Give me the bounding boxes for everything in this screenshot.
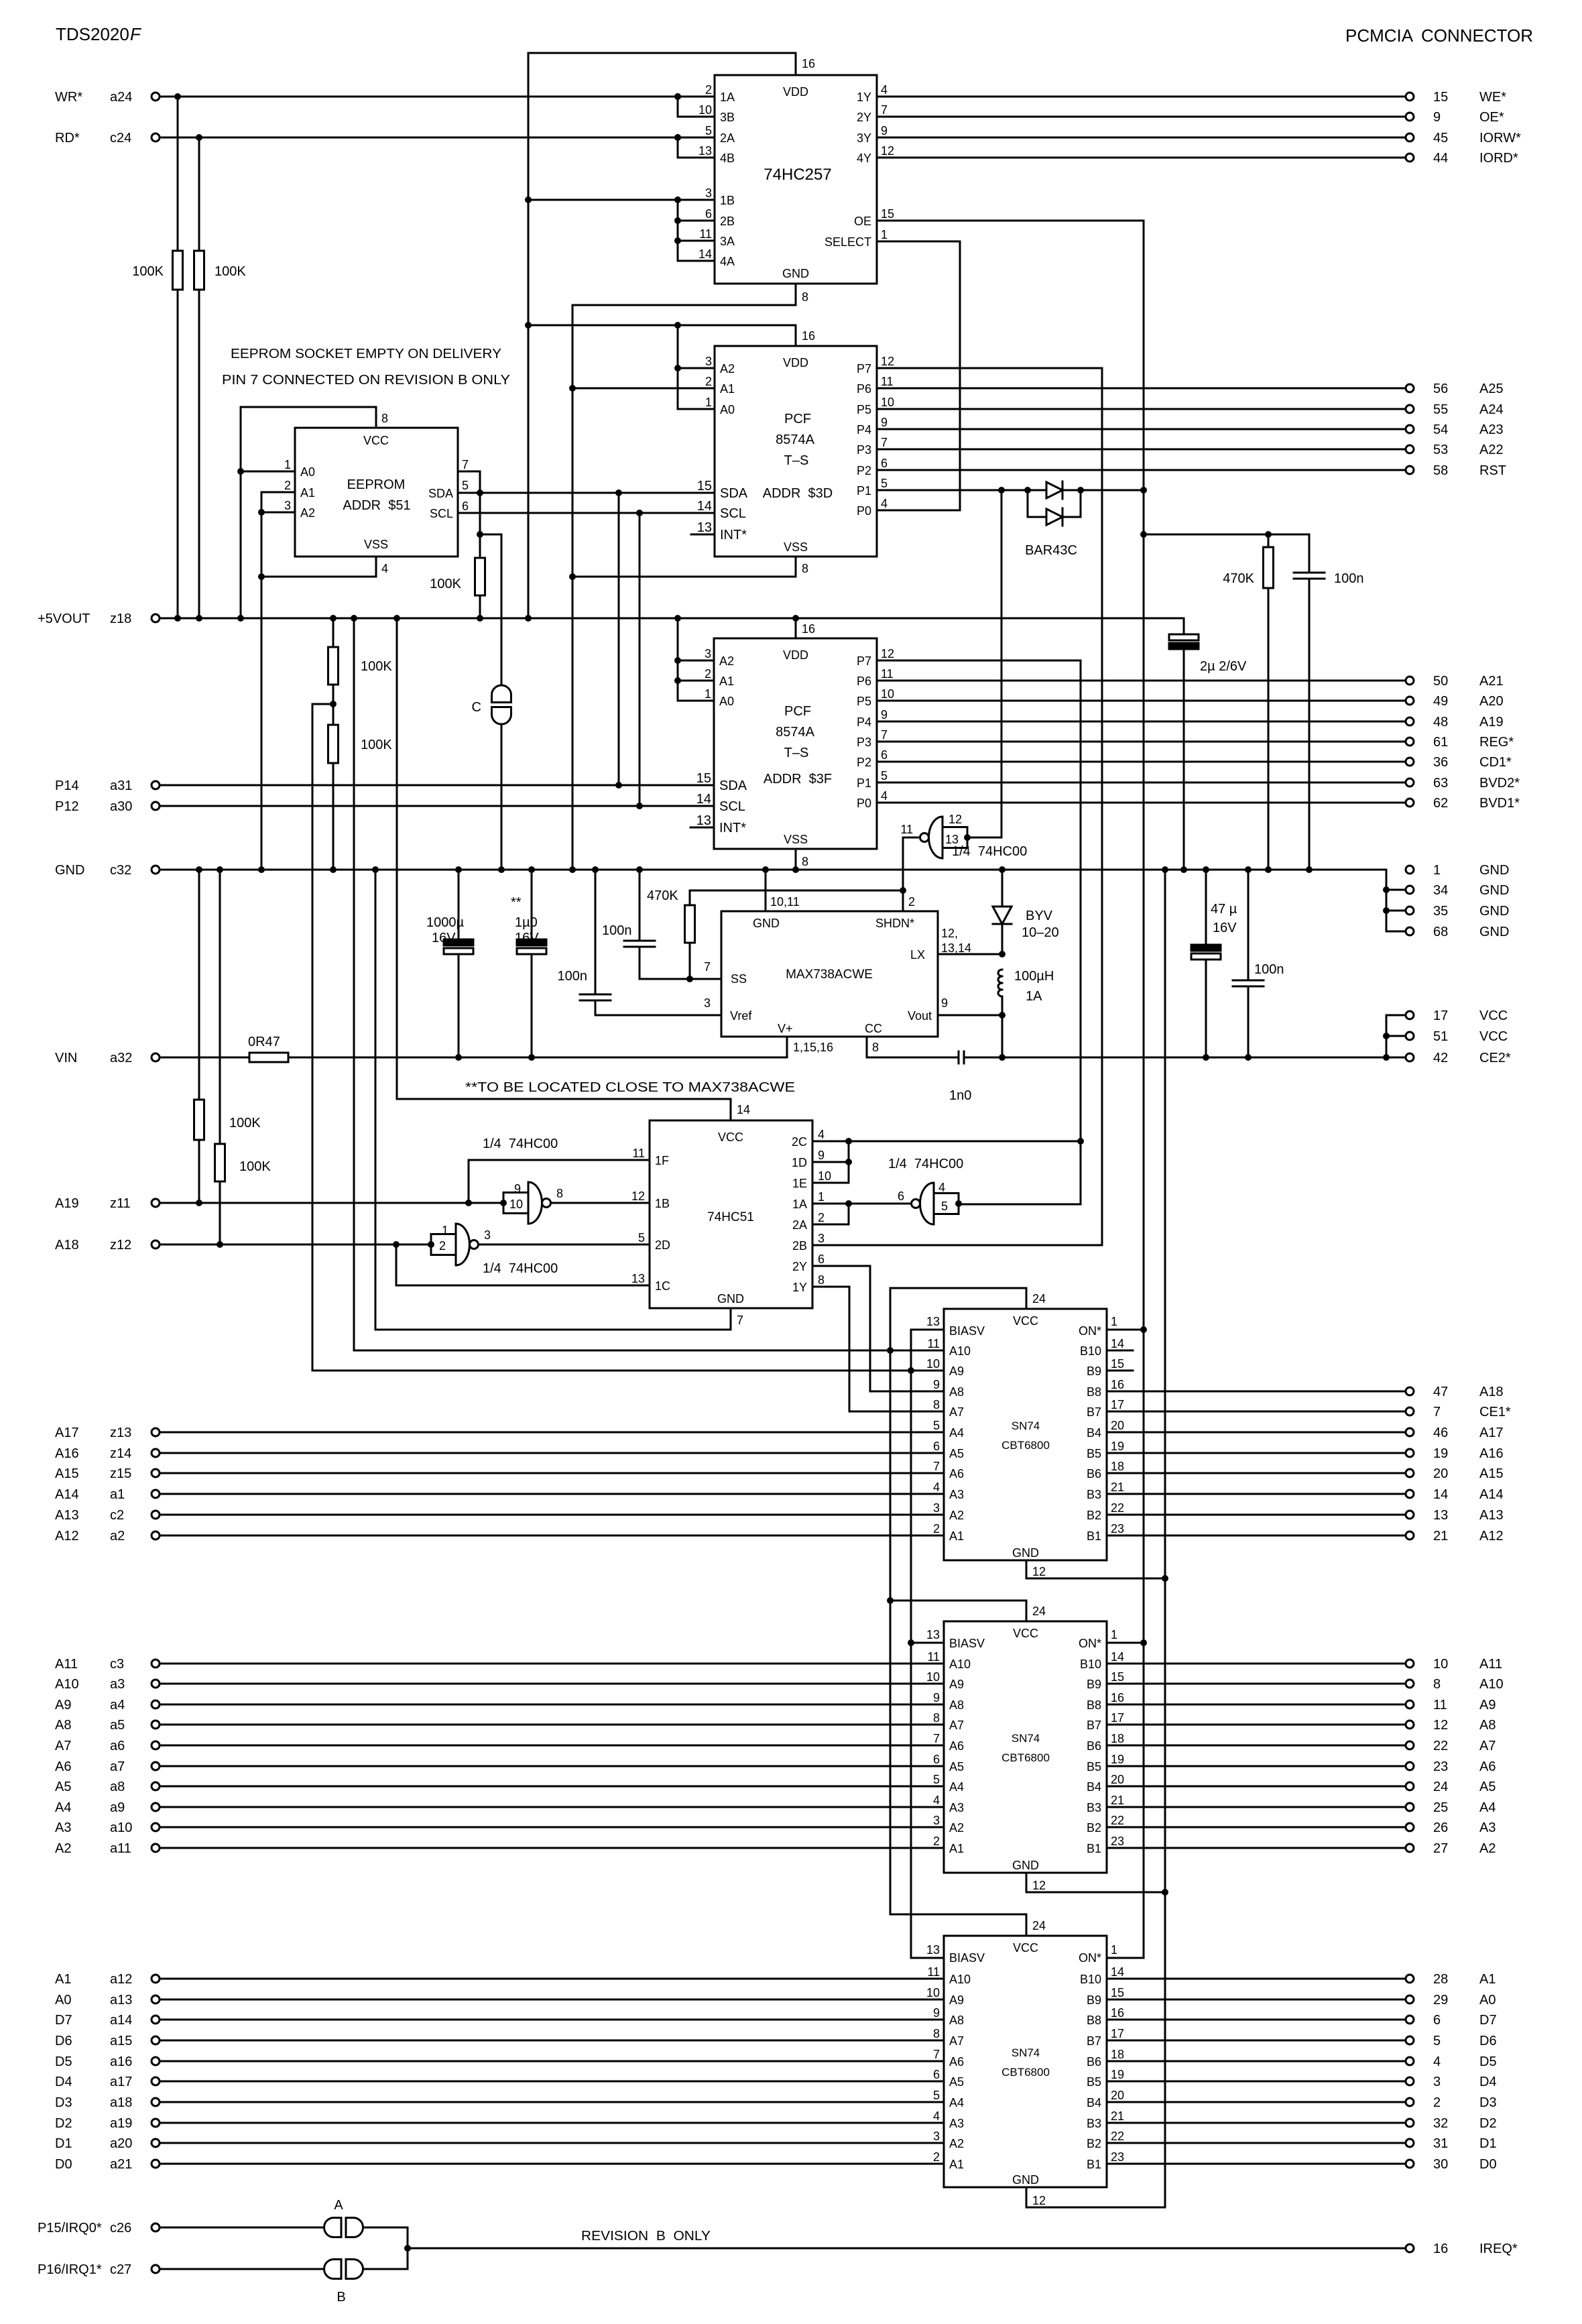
- svg-text:MAX738ACWE: MAX738ACWE: [786, 968, 873, 982]
- diode BAR43C lower: [1028, 490, 1081, 526]
- svg-text:15: 15: [697, 479, 712, 493]
- svg-text:7: 7: [704, 960, 711, 974]
- U9 pin 16 B8: [1087, 1691, 1124, 1712]
- svg-text:a19: a19: [110, 2116, 132, 2131]
- wire A19 to NAND U5B input: [160, 1200, 503, 1206]
- terminal WR* a24: [55, 90, 160, 105]
- svg-text:4: 4: [881, 83, 888, 97]
- svg-text:23: 23: [1111, 1835, 1124, 1848]
- terminal 23 A6: [1406, 1759, 1496, 1774]
- svg-text:100K: 100K: [361, 659, 392, 674]
- U2 pin 12 P7 label: [857, 355, 894, 375]
- svg-text:4: 4: [933, 2109, 940, 2123]
- terminal 49 A20: [1406, 694, 1504, 709]
- svg-text:47: 47: [1433, 1385, 1448, 1399]
- wire GND branch to connector grounds: [1383, 870, 1406, 931]
- wire VCC branch to connector VCC pins: [1383, 1015, 1406, 1057]
- svg-text:100K: 100K: [361, 738, 392, 752]
- svg-text:12: 12: [881, 355, 894, 368]
- svg-text:4: 4: [881, 497, 888, 510]
- svg-text:7: 7: [933, 1732, 940, 1745]
- svg-text:8: 8: [381, 412, 388, 425]
- svg-text:A3: A3: [949, 1488, 964, 1501]
- capacitor 1u0 16V: [511, 870, 546, 1057]
- wire 2A to 4B tie: [674, 134, 681, 158]
- wire D1 to U10: [160, 2142, 944, 2144]
- svg-text:P5: P5: [857, 403, 871, 416]
- svg-text:A1: A1: [55, 1972, 71, 1987]
- svg-text:VIN: VIN: [55, 1051, 77, 1065]
- terminal +5VOUT z18: [38, 612, 160, 626]
- U10 pin 10 A9: [926, 1986, 964, 2007]
- terminal RD* c24: [55, 131, 160, 146]
- wire U10 B side to D1: [1107, 2142, 1406, 2144]
- terminal A9 a4: [55, 1698, 160, 1712]
- svg-text:22: 22: [1111, 1814, 1124, 1827]
- svg-text:A2: A2: [949, 1509, 964, 1522]
- terminal 46 A17: [1406, 1426, 1504, 1440]
- svg-text:B: B: [337, 2290, 345, 2305]
- U7 pin 10 1E: [792, 1169, 831, 1190]
- wire 1B 2B 3A 4A tie to VDD column: [525, 196, 681, 261]
- svg-text:P7: P7: [857, 362, 871, 375]
- text note pin7: [222, 373, 510, 388]
- svg-text:A17: A17: [55, 1426, 79, 1440]
- svg-text:27: 27: [1433, 1841, 1448, 1856]
- svg-text:A22: A22: [1479, 443, 1504, 457]
- IC U1 74HC257 quad mux body: [715, 75, 877, 284]
- svg-text:8: 8: [933, 1711, 940, 1725]
- svg-text:2: 2: [705, 375, 712, 388]
- wire A1 to U10: [160, 1978, 944, 1980]
- svg-text:P15/IRQ0*: P15/IRQ0*: [38, 2221, 102, 2235]
- svg-text:A10: A10: [55, 1677, 79, 1692]
- svg-text:1: 1: [442, 1224, 448, 1237]
- svg-text:A2: A2: [949, 2137, 964, 2150]
- wire U7 2Y to CBT A8: [812, 1266, 944, 1391]
- svg-text:28: 28: [1433, 1972, 1448, 1987]
- U1 pin 12 4Y stub: [857, 144, 894, 165]
- svg-text:VCC: VCC: [1013, 1314, 1038, 1328]
- U9 pin 1 ON* stub: [1107, 1628, 1144, 1643]
- terminal D6 a15: [55, 2034, 160, 2048]
- U8 pin 15 B9: [1087, 1357, 1124, 1378]
- svg-text:6: 6: [1433, 2013, 1441, 2028]
- U9 pin 5 A4: [933, 1773, 964, 1794]
- svg-text:z12: z12: [110, 1238, 131, 1253]
- svg-text:A2: A2: [719, 654, 734, 668]
- svg-text:B7: B7: [1087, 1405, 1101, 1419]
- U10 pin 3 A2: [933, 2130, 964, 2150]
- U10 pin 22 B2: [1087, 2130, 1124, 2150]
- svg-text:1D: 1D: [792, 1156, 807, 1169]
- U7 pin 12 1B: [631, 1189, 670, 1210]
- wire U2 VDD line: [528, 322, 796, 329]
- svg-text:8: 8: [872, 1041, 879, 1054]
- U1 pin 3 1B stub: [678, 186, 735, 207]
- svg-text:B1: B1: [1087, 2158, 1101, 2171]
- wire U7 2B from U2 P7: [812, 1244, 1102, 1246]
- svg-text:GND: GND: [55, 863, 84, 878]
- svg-text:a8: a8: [110, 1780, 125, 1794]
- wire A19 branch to 74HC51 1F: [469, 1160, 650, 1203]
- svg-text:3B: 3B: [720, 111, 735, 124]
- svg-text:D3: D3: [1479, 2095, 1497, 2110]
- svg-text:P2: P2: [857, 756, 871, 769]
- svg-text:22: 22: [1111, 2130, 1124, 2143]
- svg-text:1A: 1A: [1026, 989, 1042, 1004]
- svg-text:1A: 1A: [792, 1198, 807, 1211]
- wire U9 B side to A8: [1107, 1724, 1406, 1726]
- svg-text:100µH: 100µH: [1014, 969, 1054, 984]
- wire A0 to U10: [160, 1999, 944, 2001]
- svg-text:12: 12: [631, 1189, 645, 1203]
- svg-text:8: 8: [802, 290, 808, 304]
- wire IRQ0 to link A: [160, 2227, 324, 2229]
- svg-text:35: 35: [1433, 904, 1448, 919]
- U7 pin 2 2A: [792, 1211, 825, 1232]
- svg-text:a30: a30: [110, 799, 132, 814]
- svg-text:61: 61: [1433, 735, 1448, 750]
- U2 pin 16 VDD stub: [796, 325, 815, 346]
- wire VDD net from node column to U1 pin 16: [528, 52, 796, 54]
- svg-text:15: 15: [1111, 1357, 1124, 1371]
- svg-text:EEPROM SOCKET EMPTY ON DELIVER: EEPROM SOCKET EMPTY ON DELIVERY: [231, 347, 501, 361]
- wire U4 P2 to CD1*: [877, 761, 1406, 763]
- svg-text:10–20: 10–20: [1022, 925, 1059, 940]
- svg-text:1E: 1E: [792, 1177, 807, 1190]
- terminal 19 A16: [1406, 1446, 1504, 1461]
- U9 pin 6 A5: [933, 1753, 964, 1774]
- wire A11 to U9: [160, 1663, 944, 1665]
- svg-text:3A: 3A: [720, 235, 735, 248]
- svg-text:1Y: 1Y: [857, 91, 871, 104]
- svg-text:6: 6: [898, 1189, 904, 1203]
- svg-text:A0: A0: [1479, 1993, 1496, 2008]
- svg-text:A12: A12: [1479, 1529, 1504, 1544]
- svg-text:3: 3: [933, 1814, 940, 1827]
- terminal A13 c2: [55, 1508, 160, 1523]
- svg-text:A1: A1: [1479, 1972, 1496, 1987]
- wire U10 B side to D4: [1107, 2081, 1406, 2083]
- svg-text:CC: CC: [865, 1022, 882, 1035]
- U3 pin 4 VSS stub: [376, 557, 388, 577]
- svg-text:B6: B6: [1087, 1739, 1101, 1753]
- svg-text:ADDR $51: ADDR $51: [343, 498, 410, 513]
- svg-text:GND: GND: [1012, 1859, 1039, 1872]
- svg-text:14: 14: [1111, 1650, 1124, 1664]
- terminal A11 c3: [55, 1657, 160, 1672]
- terminal D5 a16: [55, 2054, 160, 2069]
- svg-text:7: 7: [881, 103, 888, 117]
- terminal 61 REG*: [1406, 735, 1514, 750]
- svg-text:P5: P5: [857, 695, 871, 708]
- U6 CC pin 8 stub: [867, 1037, 879, 1057]
- svg-text:2A: 2A: [720, 131, 735, 145]
- wire U8 B side to A13: [1107, 1514, 1406, 1516]
- wire A8 to U9: [160, 1724, 944, 1726]
- U9 pin 4 A3: [933, 1794, 964, 1814]
- svg-text:a16: a16: [110, 2054, 132, 2069]
- U1 pin 4 1Y stub: [857, 83, 888, 104]
- svg-text:4: 4: [933, 1794, 940, 1807]
- svg-text:SDA: SDA: [428, 487, 453, 500]
- svg-text:1: 1: [881, 228, 888, 241]
- svg-text:D2: D2: [55, 2116, 72, 2131]
- U1 pin 13 4B stub: [678, 144, 735, 165]
- terminal 47 A18: [1406, 1385, 1504, 1399]
- svg-text:A2: A2: [300, 506, 315, 520]
- svg-text:10: 10: [509, 1198, 523, 1211]
- svg-text:BIASV: BIASV: [949, 1324, 985, 1338]
- gate U5B 1/4 74HC00 nand: [483, 1137, 563, 1224]
- svg-text:2: 2: [1433, 2095, 1441, 2110]
- U10 pin 5 A4: [933, 2089, 964, 2109]
- svg-text:P3: P3: [857, 736, 871, 749]
- svg-text:A9: A9: [55, 1698, 71, 1712]
- terminal 45 IORW*: [1406, 131, 1521, 146]
- svg-text:19: 19: [1111, 1440, 1124, 1453]
- IC U2 PCF8574A ADDR $3D body: [715, 346, 877, 557]
- wire SCL down to U4 SCL: [636, 513, 643, 809]
- wire U10 B side to A0: [1107, 1999, 1406, 2001]
- gate U5A 1/4 74HC00 nand: [900, 813, 1027, 859]
- svg-text:36: 36: [1433, 755, 1448, 770]
- svg-text:PCF: PCF: [784, 704, 811, 719]
- svg-text:12: 12: [1032, 1565, 1046, 1578]
- svg-text:A4: A4: [1479, 1800, 1496, 1815]
- svg-text:A5: A5: [949, 1760, 964, 1774]
- svg-text:1: 1: [705, 687, 711, 701]
- terminal 5 D6: [1406, 2034, 1497, 2048]
- svg-text:17: 17: [1111, 1398, 1124, 1411]
- U6 SS pin 7 wire: [640, 960, 721, 979]
- svg-text:a21: a21: [110, 2157, 132, 2172]
- svg-text:5: 5: [1433, 2034, 1441, 2048]
- svg-text:D6: D6: [55, 2034, 72, 2048]
- svg-text:9: 9: [933, 2006, 940, 2020]
- svg-text:13: 13: [631, 1272, 645, 1285]
- U8 pin 18 B6: [1087, 1460, 1124, 1480]
- U10 pin 4 A3: [933, 2109, 964, 2130]
- svg-text:B9: B9: [1087, 1993, 1101, 2007]
- svg-text:c27: c27: [110, 2262, 131, 2277]
- svg-text:SHDN*: SHDN*: [875, 917, 914, 930]
- svg-text:12: 12: [1433, 1718, 1448, 1733]
- svg-text:z15: z15: [110, 1466, 131, 1481]
- U2 pin 15 SDA stub: [697, 479, 748, 501]
- terminal D2 a19: [55, 2116, 160, 2131]
- wire U10 B side to D2: [1107, 2122, 1406, 2124]
- terminal 4 D5: [1406, 2054, 1497, 2069]
- svg-text:44: 44: [1433, 151, 1448, 166]
- svg-text:16: 16: [802, 329, 815, 343]
- U10 pin 12 GND stub: [1026, 2187, 1165, 2207]
- svg-text:21: 21: [1111, 2109, 1124, 2123]
- terminal A16 z14: [55, 1446, 160, 1461]
- U2 pin 11 P6 label: [857, 375, 894, 396]
- wire U10 B side to D5: [1107, 2060, 1406, 2062]
- svg-text:15: 15: [1111, 1670, 1124, 1684]
- U8 pin 21 B3: [1087, 1480, 1124, 1501]
- svg-text:SS: SS: [731, 972, 747, 986]
- U8 pin 17 B7: [1087, 1398, 1124, 1419]
- svg-text:19: 19: [1111, 1753, 1124, 1766]
- svg-text:14: 14: [697, 499, 712, 514]
- wire U9 B side to A6: [1107, 1765, 1406, 1767]
- wire VCC rail down CBT column: [887, 1350, 894, 1914]
- svg-text:1n0: 1n0: [949, 1088, 971, 1103]
- U9 pin 17 B7: [1087, 1711, 1124, 1732]
- U2 pin 7 P3 label: [857, 436, 888, 457]
- U8 pin 10 A9: [926, 1357, 964, 1378]
- svg-text:9: 9: [818, 1149, 825, 1162]
- svg-text:2: 2: [818, 1211, 825, 1224]
- svg-text:A20: A20: [1479, 694, 1504, 709]
- svg-text:B5: B5: [1087, 1760, 1101, 1774]
- U4 pin 16 VDD stub: [796, 618, 815, 638]
- svg-text:32: 32: [1433, 2116, 1448, 2131]
- svg-text:GND: GND: [1479, 883, 1509, 898]
- svg-text:z18: z18: [110, 612, 131, 626]
- U8 pin 5 A4: [933, 1419, 964, 1440]
- U3 pin 6 SCL stub: [430, 500, 469, 520]
- svg-text:7: 7: [933, 2048, 940, 2061]
- svg-text:2: 2: [933, 1522, 940, 1535]
- terminal 8 A10: [1406, 1677, 1504, 1692]
- U3 pin 2 A1 stub: [261, 479, 315, 500]
- U4 pin 9 P4 label: [857, 708, 888, 729]
- terminal A0 a13: [55, 1993, 160, 2008]
- U9 pin 3 A2: [933, 1814, 964, 1835]
- svg-text:8: 8: [933, 2027, 940, 2040]
- svg-text:A0: A0: [720, 403, 735, 416]
- svg-text:62: 62: [1433, 796, 1448, 811]
- U4 pin 11 P6 label: [857, 667, 894, 688]
- svg-text:5: 5: [941, 1200, 948, 1213]
- capacitor 100n to ground rail: [1294, 534, 1364, 873]
- U10 pin 2 A1: [933, 2150, 964, 2171]
- svg-text:16V: 16V: [432, 931, 456, 945]
- svg-text:19: 19: [1433, 1446, 1448, 1461]
- svg-text:a31: a31: [110, 778, 132, 793]
- svg-text:BIASV: BIASV: [949, 1951, 985, 1965]
- terminal A7 a6: [55, 1739, 160, 1753]
- svg-text:68: 68: [1433, 925, 1448, 939]
- svg-text:SCL: SCL: [720, 506, 746, 521]
- svg-text:B10: B10: [1080, 1344, 1101, 1358]
- svg-text:+5VOUT: +5VOUT: [38, 612, 90, 626]
- svg-text:74HC257: 74HC257: [764, 166, 831, 184]
- U8 pin 9 A8: [933, 1378, 964, 1399]
- svg-text:A5: A5: [949, 2075, 964, 2089]
- svg-text:A2: A2: [1479, 1841, 1496, 1856]
- svg-text:100n: 100n: [1334, 571, 1364, 586]
- svg-text:D4: D4: [55, 2075, 72, 2089]
- wire U5A output to MAX738 SHDN: [900, 837, 918, 911]
- svg-text:100n: 100n: [1254, 962, 1284, 977]
- svg-text:4A: 4A: [720, 255, 735, 268]
- svg-text:A15: A15: [1479, 1466, 1504, 1481]
- svg-text:A8: A8: [1479, 1718, 1496, 1733]
- wire 3Y to IORW*: [877, 137, 1406, 139]
- svg-text:IREQ*: IREQ*: [1479, 2242, 1518, 2256]
- U2 pin 3 A2 stub: [678, 355, 735, 375]
- svg-text:51: 51: [1433, 1029, 1448, 1044]
- svg-text:SN74: SN74: [1012, 1732, 1040, 1745]
- svg-text:3: 3: [933, 1501, 940, 1515]
- svg-text:A3: A3: [1479, 1820, 1496, 1835]
- svg-text:A13: A13: [55, 1508, 79, 1523]
- svg-text:16: 16: [802, 622, 815, 636]
- svg-text:A0: A0: [300, 465, 315, 479]
- wire U10 B side to A1: [1107, 1978, 1406, 1980]
- U9 pin 8 A7: [933, 1711, 964, 1732]
- svg-text:A16: A16: [1479, 1446, 1504, 1461]
- svg-text:a10: a10: [110, 1820, 132, 1835]
- svg-text:22: 22: [1433, 1739, 1448, 1753]
- text note close to MAX738: [465, 1080, 795, 1095]
- svg-text:3: 3: [705, 355, 712, 368]
- wire U8 B side to A16: [1107, 1452, 1406, 1454]
- svg-text:1/4 74HC00: 1/4 74HC00: [483, 1137, 558, 1151]
- svg-text:3: 3: [484, 1228, 491, 1242]
- U8 pin 20 B4: [1087, 1419, 1124, 1440]
- wire U2 P6 to A25: [877, 388, 1406, 390]
- terminal 24 A5: [1406, 1780, 1496, 1794]
- svg-text:Vout: Vout: [908, 1009, 932, 1023]
- svg-text:23: 23: [1433, 1759, 1448, 1774]
- wire U2 P2 to RST: [877, 469, 1406, 471]
- svg-text:15: 15: [1111, 1986, 1124, 1999]
- svg-text:A19: A19: [1479, 715, 1504, 730]
- svg-text:P6: P6: [857, 675, 871, 688]
- svg-text:A6: A6: [55, 1759, 71, 1774]
- svg-text:1000µ: 1000µ: [426, 915, 464, 930]
- svg-text:6: 6: [933, 1753, 940, 1766]
- svg-text:25: 25: [1433, 1800, 1448, 1815]
- wire SCL bus EEPROM to U2 pin 14: [458, 510, 715, 516]
- svg-text:12: 12: [1032, 1879, 1046, 1892]
- capacitor 1n0: [867, 1051, 1002, 1103]
- terminal A10 a3: [55, 1677, 160, 1692]
- svg-text:4Y: 4Y: [857, 152, 871, 165]
- svg-text:45: 45: [1433, 131, 1448, 146]
- U10 pin 14 B10: [1080, 1965, 1124, 1986]
- U2 pin 4 P0 label: [857, 497, 888, 518]
- U7 pin 6 2Y: [792, 1253, 825, 1273]
- svg-text:**: **: [511, 895, 522, 910]
- svg-text:B3: B3: [1087, 1488, 1101, 1501]
- svg-text:50: 50: [1433, 674, 1448, 689]
- U9 pin 13 BIASV stub: [911, 1628, 944, 1643]
- svg-text:13,14: 13,14: [941, 941, 971, 955]
- wire 1A to 3B tie: [674, 93, 681, 117]
- terminal 10 A11: [1406, 1657, 1502, 1672]
- svg-text:3Y: 3Y: [857, 131, 871, 145]
- U9 pin 12 GND stub: [1026, 1873, 1165, 1892]
- svg-text:11: 11: [900, 823, 913, 836]
- svg-text:16V: 16V: [515, 931, 539, 945]
- svg-text:A24: A24: [1479, 402, 1504, 417]
- wire U7 1Y to CBT A7: [812, 1287, 944, 1411]
- U9 pin 21 B3: [1087, 1794, 1124, 1814]
- svg-text:55: 55: [1433, 402, 1448, 417]
- svg-text:B7: B7: [1087, 1719, 1101, 1732]
- text note EEPROM socket: [231, 347, 501, 361]
- svg-text:a20: a20: [110, 2136, 132, 2151]
- terminal 6 D7: [1406, 2013, 1497, 2028]
